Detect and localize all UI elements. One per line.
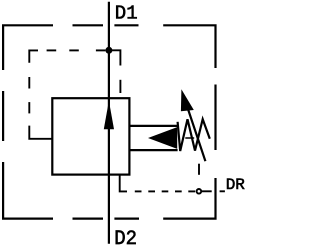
drain line dashes [135, 190, 142, 192]
pilot line right of junction down to box top [111, 50, 120, 93]
svg-text:DR: DR [226, 176, 246, 194]
spring tick [185, 137, 194, 139]
pilot line left: bottom corner into box [29, 126, 52, 139]
adjustment arrow head [181, 89, 194, 111]
output lines box to spring [129, 125, 177, 127]
adjustment arrow shaft [187, 107, 205, 161]
drain port circle [197, 189, 202, 194]
enclosure dashed border: left edge [3, 91, 53, 219]
enclosure dashed border: bottom edge [73, 218, 140, 220]
spring zigzag [178, 119, 210, 151]
flow arrow head [104, 101, 114, 130]
junction dot [105, 47, 112, 54]
pilot line left: horizontal dashes [47, 49, 57, 51]
enclosure dashed border: right edge [163, 85, 215, 219]
relief arrow pointing left [148, 127, 177, 149]
DR line to label [202, 190, 225, 192]
pilot line left: vertical dashes [28, 77, 30, 89]
enclosure dashed border: top edge [3, 25, 215, 70]
main line D1-D2 [108, 2, 110, 244]
drain line from box bottom [120, 175, 196, 191]
drain dash from spring [198, 164, 200, 175]
pilot line left: corner at top [29, 50, 105, 138]
svg-text:D2: D2 [114, 228, 137, 245]
valve body box [52, 98, 129, 174]
svg-text:D1: D1 [115, 2, 138, 24]
